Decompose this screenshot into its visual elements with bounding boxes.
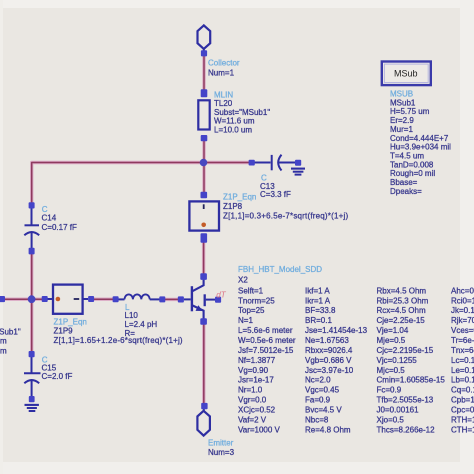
svg-text:Re=4.8 Ohm: Re=4.8 Ohm (305, 425, 351, 434)
svg-text:Vgr=0.0: Vgr=0.0 (238, 396, 267, 405)
svg-text:Bbase=: Bbase= (390, 178, 418, 187)
svg-text:Tnx=6e-9: Tnx=6e-9 (451, 346, 474, 355)
svg-text:Mje=0.5: Mje=0.5 (377, 336, 406, 345)
svg-text:Jk=0.1: Jk=0.1 (451, 306, 474, 315)
svg-text:Emitter: Emitter (208, 439, 234, 448)
svg-text:Collector: Collector (208, 59, 240, 68)
svg-text:Jsf=7.5012e-15: Jsf=7.5012e-15 (238, 346, 294, 355)
svg-text:Num=1: Num=1 (208, 69, 235, 78)
svg-text:Vgb=0.686 V: Vgb=0.686 V (305, 356, 352, 365)
svg-text:Vgc=0.45: Vgc=0.45 (305, 386, 340, 395)
svg-text:L10: L10 (125, 311, 139, 320)
svg-text:dT: dT (216, 291, 226, 300)
svg-text:Tfb=2.5055e-13: Tfb=2.5055e-13 (377, 396, 434, 405)
svg-text:Nf=1.3877: Nf=1.3877 (238, 356, 276, 365)
svg-text:Z1P_Eqn: Z1P_Eqn (223, 193, 256, 202)
svg-text:FBH_HBT_Model_SDD: FBH_HBT_Model_SDD (238, 265, 322, 274)
svg-text:Cq=0.1: Cq=0.1 (451, 386, 474, 395)
svg-text:Top=25: Top=25 (238, 306, 265, 315)
svg-text:Fc=0.9: Fc=0.9 (377, 386, 402, 395)
svg-text:Tr=6e-12: Tr=6e-12 (451, 336, 474, 345)
svg-text:Vaf=2 V: Vaf=2 V (238, 415, 267, 424)
svg-text:R=: R= (125, 329, 136, 338)
svg-text:Nc=2.0: Nc=2.0 (305, 376, 331, 385)
svg-text:Z1P_Eqn: Z1P_Eqn (54, 318, 87, 327)
svg-text:CTH=1e-9: CTH=1e-9 (451, 425, 474, 434)
svg-text:Subst="MSub1": Subst="MSub1" (0, 328, 21, 337)
svg-text:H=5.75 um: H=5.75 um (390, 107, 430, 116)
svg-text:Hu=3.9e+034 mil: Hu=3.9e+034 mil (390, 143, 451, 152)
svg-text:BR=0.1: BR=0.1 (305, 316, 332, 325)
svg-text:Cjc=2.2195e-15: Cjc=2.2195e-15 (377, 346, 434, 355)
svg-text:Cje=2.25e-15: Cje=2.25e-15 (377, 316, 426, 325)
svg-text:Z1P9: Z1P9 (54, 327, 74, 336)
svg-text:Ikf=1 A: Ikf=1 A (305, 286, 330, 295)
svg-text:Cpb=1: Cpb=1 (451, 396, 474, 405)
svg-text:Vjc=0.1255: Vjc=0.1255 (377, 356, 418, 365)
svg-text:J0=0.00161: J0=0.00161 (377, 406, 420, 415)
svg-text:RTH=100: RTH=100 (451, 415, 474, 424)
svg-text:Ahc=0.1: Ahc=0.1 (451, 286, 474, 295)
svg-text:Nbc=8: Nbc=8 (305, 415, 329, 424)
svg-text:L=2 um: L=2 um (0, 347, 7, 356)
svg-text:TL20: TL20 (214, 99, 233, 108)
svg-text:Cmin=1.60585e-15: Cmin=1.60585e-15 (377, 376, 446, 385)
svg-text:Var=1000 V: Var=1000 V (238, 425, 281, 434)
svg-text:Ikr=1 A: Ikr=1 A (305, 296, 331, 305)
svg-text:Ne=1.67563: Ne=1.67563 (305, 336, 349, 345)
svg-text:Rcx=4.5 Ohm: Rcx=4.5 Ohm (377, 306, 426, 315)
svg-text:Bvc=4.5 V: Bvc=4.5 V (305, 406, 342, 415)
svg-text:C14: C14 (42, 214, 57, 223)
svg-text:MSub1: MSub1 (390, 98, 416, 107)
svg-text:MSUB: MSUB (390, 90, 413, 99)
svg-text:Cond=4.444E+7: Cond=4.444E+7 (390, 134, 449, 143)
svg-text:Num=3: Num=3 (208, 448, 235, 457)
svg-text:Vg=0.90: Vg=0.90 (238, 366, 269, 375)
svg-text:XCjc=0.52: XCjc=0.52 (238, 406, 276, 415)
svg-text:Jsr=1e-17: Jsr=1e-17 (238, 376, 274, 385)
svg-text:Z[1,1]=0.3+6.5e-7*sqrt(freq)*(: Z[1,1]=0.3+6.5e-7*sqrt(freq)*(1+j) (223, 212, 348, 221)
svg-text:Rbi=25.3 Ohm: Rbi=25.3 Ohm (377, 296, 429, 305)
svg-text:Nr=1.0: Nr=1.0 (238, 386, 263, 395)
svg-text:Xjo=0.5: Xjo=0.5 (377, 415, 405, 424)
svg-text:L=5.6e-6 meter: L=5.6e-6 meter (238, 326, 293, 335)
svg-text:Jse=1.41454e-13: Jse=1.41454e-13 (305, 326, 368, 335)
svg-text:L=2.4 pH: L=2.4 pH (125, 320, 158, 329)
svg-text:T=4.5 um: T=4.5 um (390, 152, 424, 161)
svg-text:Vces=0: Vces=0 (451, 326, 474, 335)
svg-text:Mjc=0.5: Mjc=0.5 (377, 366, 406, 375)
svg-text:Rci0=10: Rci0=10 (451, 296, 474, 305)
svg-text:Z[1,1]=1.65+1.2e-6*sqrt(freq)*: Z[1,1]=1.65+1.2e-6*sqrt(freq)*(1+j) (54, 336, 183, 345)
svg-text:Dpeaks=: Dpeaks= (390, 187, 422, 196)
svg-text:Rough=0 mil: Rough=0 mil (390, 169, 435, 178)
svg-text:Rjk=70: Rjk=70 (451, 316, 474, 325)
svg-text:C=3.3 fF: C=3.3 fF (260, 190, 291, 199)
svg-text:Rbx=4.5 Ohm: Rbx=4.5 Ohm (377, 286, 427, 295)
svg-text:Le=0.1: Le=0.1 (451, 366, 474, 375)
svg-text:N=1: N=1 (238, 316, 253, 325)
svg-text:L=10.0 um: L=10.0 um (214, 125, 252, 134)
svg-text:Cpc=0.1: Cpc=0.1 (451, 406, 474, 415)
svg-text:Thcs=8.266e-12: Thcs=8.266e-12 (377, 425, 436, 434)
svg-text:C=2.0 fF: C=2.0 fF (42, 372, 73, 381)
svg-text:Jsc=3.97e-10: Jsc=3.97e-10 (305, 366, 354, 375)
svg-text:Selft=1: Selft=1 (238, 286, 264, 295)
svg-text:X2: X2 (238, 276, 248, 285)
svg-text:Lb=0.1: Lb=0.1 (451, 376, 474, 385)
svg-text:MLIN: MLIN (214, 90, 233, 99)
svg-text:BF=33.8: BF=33.8 (305, 306, 336, 315)
svg-text:W=0.5e-6 meter: W=0.5e-6 meter (238, 336, 296, 345)
svg-text:Vje=1.04: Vje=1.04 (377, 326, 409, 335)
svg-text:Er=2.9: Er=2.9 (390, 116, 414, 125)
svg-text:Lc=0.1: Lc=0.1 (451, 356, 474, 365)
svg-text:Mur=1: Mur=1 (390, 125, 413, 134)
svg-text:Rbxx=9026.4: Rbxx=9026.4 (305, 346, 353, 355)
svg-text:Subst="MSub1": Subst="MSub1" (214, 108, 270, 117)
svg-text:C=0.17 fF: C=0.17 fF (42, 223, 77, 232)
svg-text:W=2 um: W=2 um (0, 337, 7, 346)
svg-text:MSub: MSub (394, 69, 418, 79)
svg-text:Fa=0.9: Fa=0.9 (305, 396, 331, 405)
svg-text:Tnorm=25: Tnorm=25 (238, 296, 275, 305)
svg-text:Z1P8: Z1P8 (223, 202, 243, 211)
svg-text:W=11.6 um: W=11.6 um (214, 117, 255, 126)
svg-text:TanD=0.008: TanD=0.008 (390, 160, 434, 169)
